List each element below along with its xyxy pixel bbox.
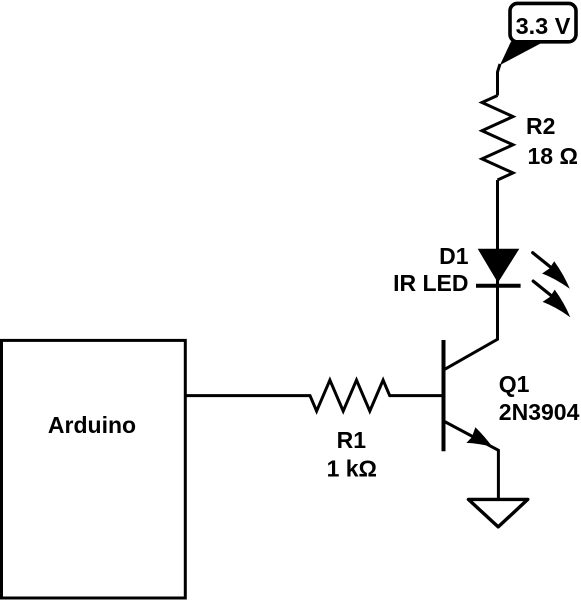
svg-text:Arduino: Arduino	[48, 412, 136, 438]
svg-text:IR LED: IR LED	[393, 270, 468, 296]
svg-text:1 kΩ: 1 kΩ	[327, 456, 377, 482]
svg-text:2N3904: 2N3904	[499, 399, 580, 425]
svg-text:R1: R1	[337, 427, 367, 453]
svg-text:3.3 V: 3.3 V	[516, 13, 571, 39]
svg-text:18 Ω: 18 Ω	[528, 143, 578, 169]
svg-text:Q1: Q1	[499, 371, 530, 397]
svg-text:R2: R2	[526, 113, 555, 139]
svg-text:D1: D1	[439, 243, 469, 269]
